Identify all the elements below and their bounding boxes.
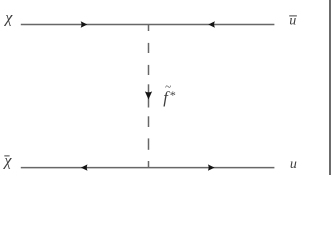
svg-text:χ: χ <box>2 153 12 170</box>
svg-text:u: u <box>290 157 297 172</box>
svg-text:*: * <box>169 88 175 102</box>
svg-text:χ: χ <box>3 10 13 27</box>
